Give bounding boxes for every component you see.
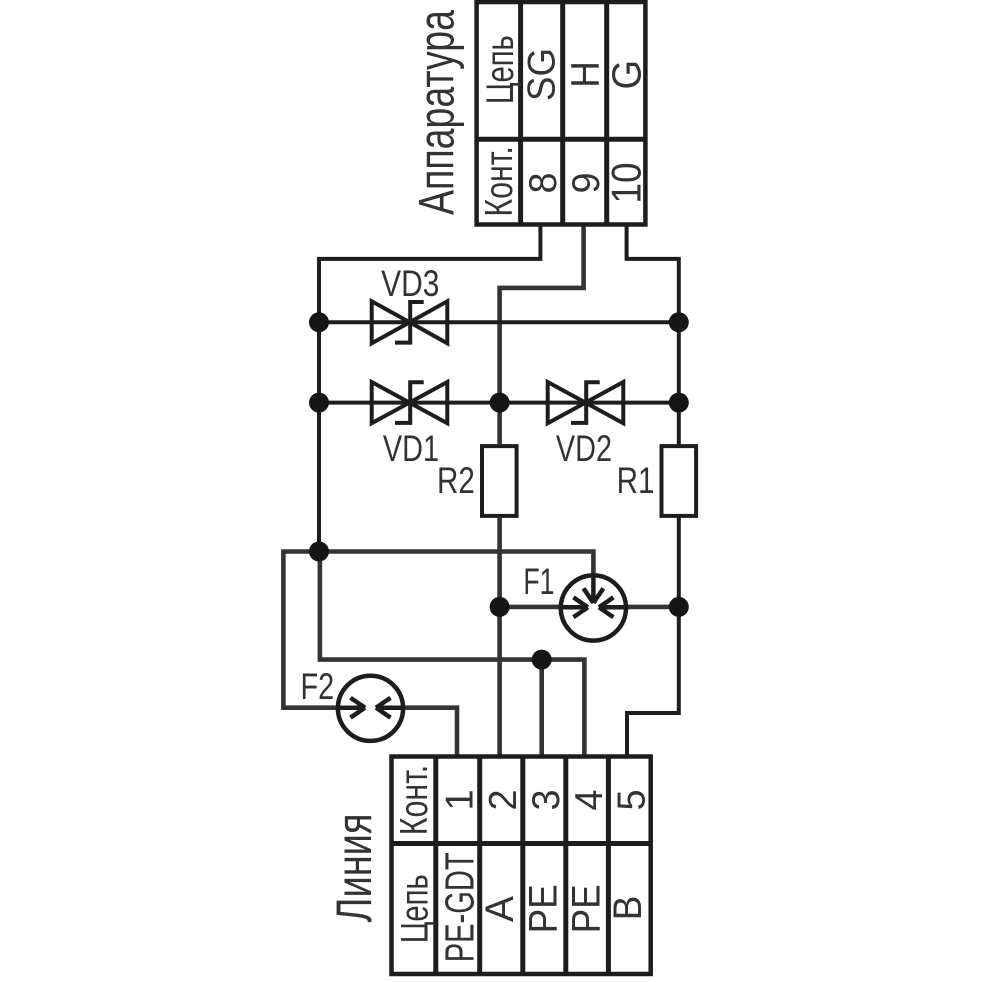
wire pin10 to right bus to pin5 — [627, 227, 679, 757]
suppressor VD3 — [372, 301, 448, 343]
connector table Линия — [392, 757, 651, 975]
svg-text:VD1: VD1 — [383, 429, 439, 470]
svg-text:PE-GDT: PE-GDT — [437, 852, 483, 962]
connector table Аппаратура — [477, 2, 646, 225]
node junction VD3 right — [669, 312, 689, 332]
svg-text:8: 8 — [522, 172, 566, 193]
svg-text:Конт.: Конт. — [392, 765, 435, 835]
wire F1 left stub — [500, 605, 562, 610]
svg-text:PE: PE — [564, 884, 609, 933]
wire left bus down to pins 3,4 — [320, 552, 585, 757]
suppressor VD1 — [372, 382, 448, 423]
node junction F1 right — [669, 597, 689, 617]
svg-text:5: 5 — [610, 789, 654, 810]
wire F1 top electrode to SG bus — [283, 552, 593, 708]
node junction VD3 left — [309, 312, 329, 332]
svg-text:F1: F1 — [523, 561, 554, 602]
svg-text:Цепь: Цепь — [393, 874, 436, 943]
resistor R1 — [662, 446, 697, 516]
wire VD1-VD2 row — [319, 401, 679, 405]
node junction left bus F-row — [309, 542, 329, 562]
svg-text:VD2: VD2 — [556, 429, 612, 470]
svg-text:3: 3 — [524, 789, 568, 810]
gas discharge tube F2 (2-electrode) — [338, 676, 403, 741]
svg-text:Линия: Линия — [327, 814, 382, 923]
svg-text:1: 1 — [438, 789, 482, 810]
svg-text:Конт.: Конт. — [477, 146, 520, 216]
suppressor VD2 — [548, 382, 624, 423]
svg-text:VD3: VD3 — [381, 264, 439, 305]
svg-text:R1: R1 — [617, 461, 655, 502]
wire F2 right to pin1 — [402, 708, 457, 757]
gas discharge tube F1 (3-electrode) — [561, 575, 626, 640]
node junction VD1 left — [309, 393, 329, 413]
svg-text:10: 10 — [603, 162, 650, 203]
wire R2 bottom to pin2 — [497, 518, 502, 757]
svg-text:F2: F2 — [301, 667, 335, 708]
svg-text:PE: PE — [521, 884, 566, 933]
node junction VD2 right — [669, 393, 689, 413]
resistor R2 — [482, 446, 517, 516]
svg-text:H: H — [563, 61, 608, 88]
wire pin8 to left bus — [319, 227, 540, 552]
wire pin3 drop — [539, 660, 544, 757]
svg-text:B: B — [606, 896, 651, 921]
wire F1 right stub — [625, 605, 679, 610]
svg-text:4: 4 — [567, 789, 611, 810]
svg-text:A: A — [478, 895, 522, 922]
svg-text:Аппаратура: Аппаратура — [409, 10, 464, 215]
svg-text:G: G — [604, 60, 650, 90]
node junction F1 left — [490, 597, 510, 617]
svg-text:SG: SG — [521, 48, 564, 101]
node junction pin3 branch — [532, 650, 552, 670]
svg-text:9: 9 — [565, 172, 609, 193]
svg-text:R2: R2 — [437, 461, 475, 502]
wire VD3 row — [319, 320, 679, 324]
svg-text:Цепь: Цепь — [479, 35, 522, 104]
wire pin9 to R2 top — [500, 227, 584, 445]
svg-text:2: 2 — [481, 789, 525, 810]
node junction VD1-VD2 middle — [490, 393, 510, 413]
